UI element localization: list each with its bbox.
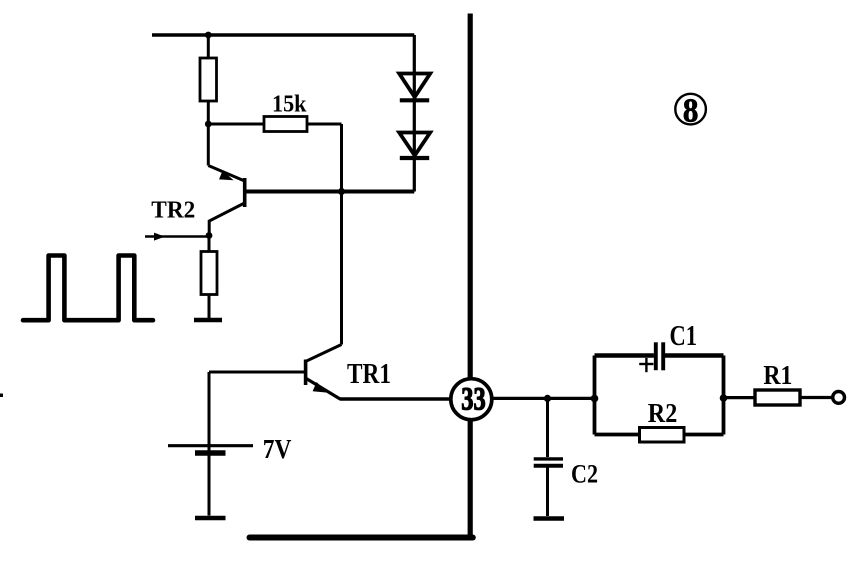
svg-text:C1: C1	[670, 320, 698, 352]
svg-text:8: 8	[683, 92, 699, 129]
svg-text:7V: 7V	[263, 434, 292, 464]
svg-text:C2: C2	[571, 460, 598, 489]
svg-text:33: 33	[461, 382, 486, 418]
svg-text:15k: 15k	[272, 92, 307, 118]
svg-text:TR1: TR1	[347, 358, 391, 390]
svg-text:R2: R2	[648, 398, 678, 428]
svg-text:TR2: TR2	[151, 196, 195, 223]
svg-text:R1: R1	[763, 360, 792, 390]
